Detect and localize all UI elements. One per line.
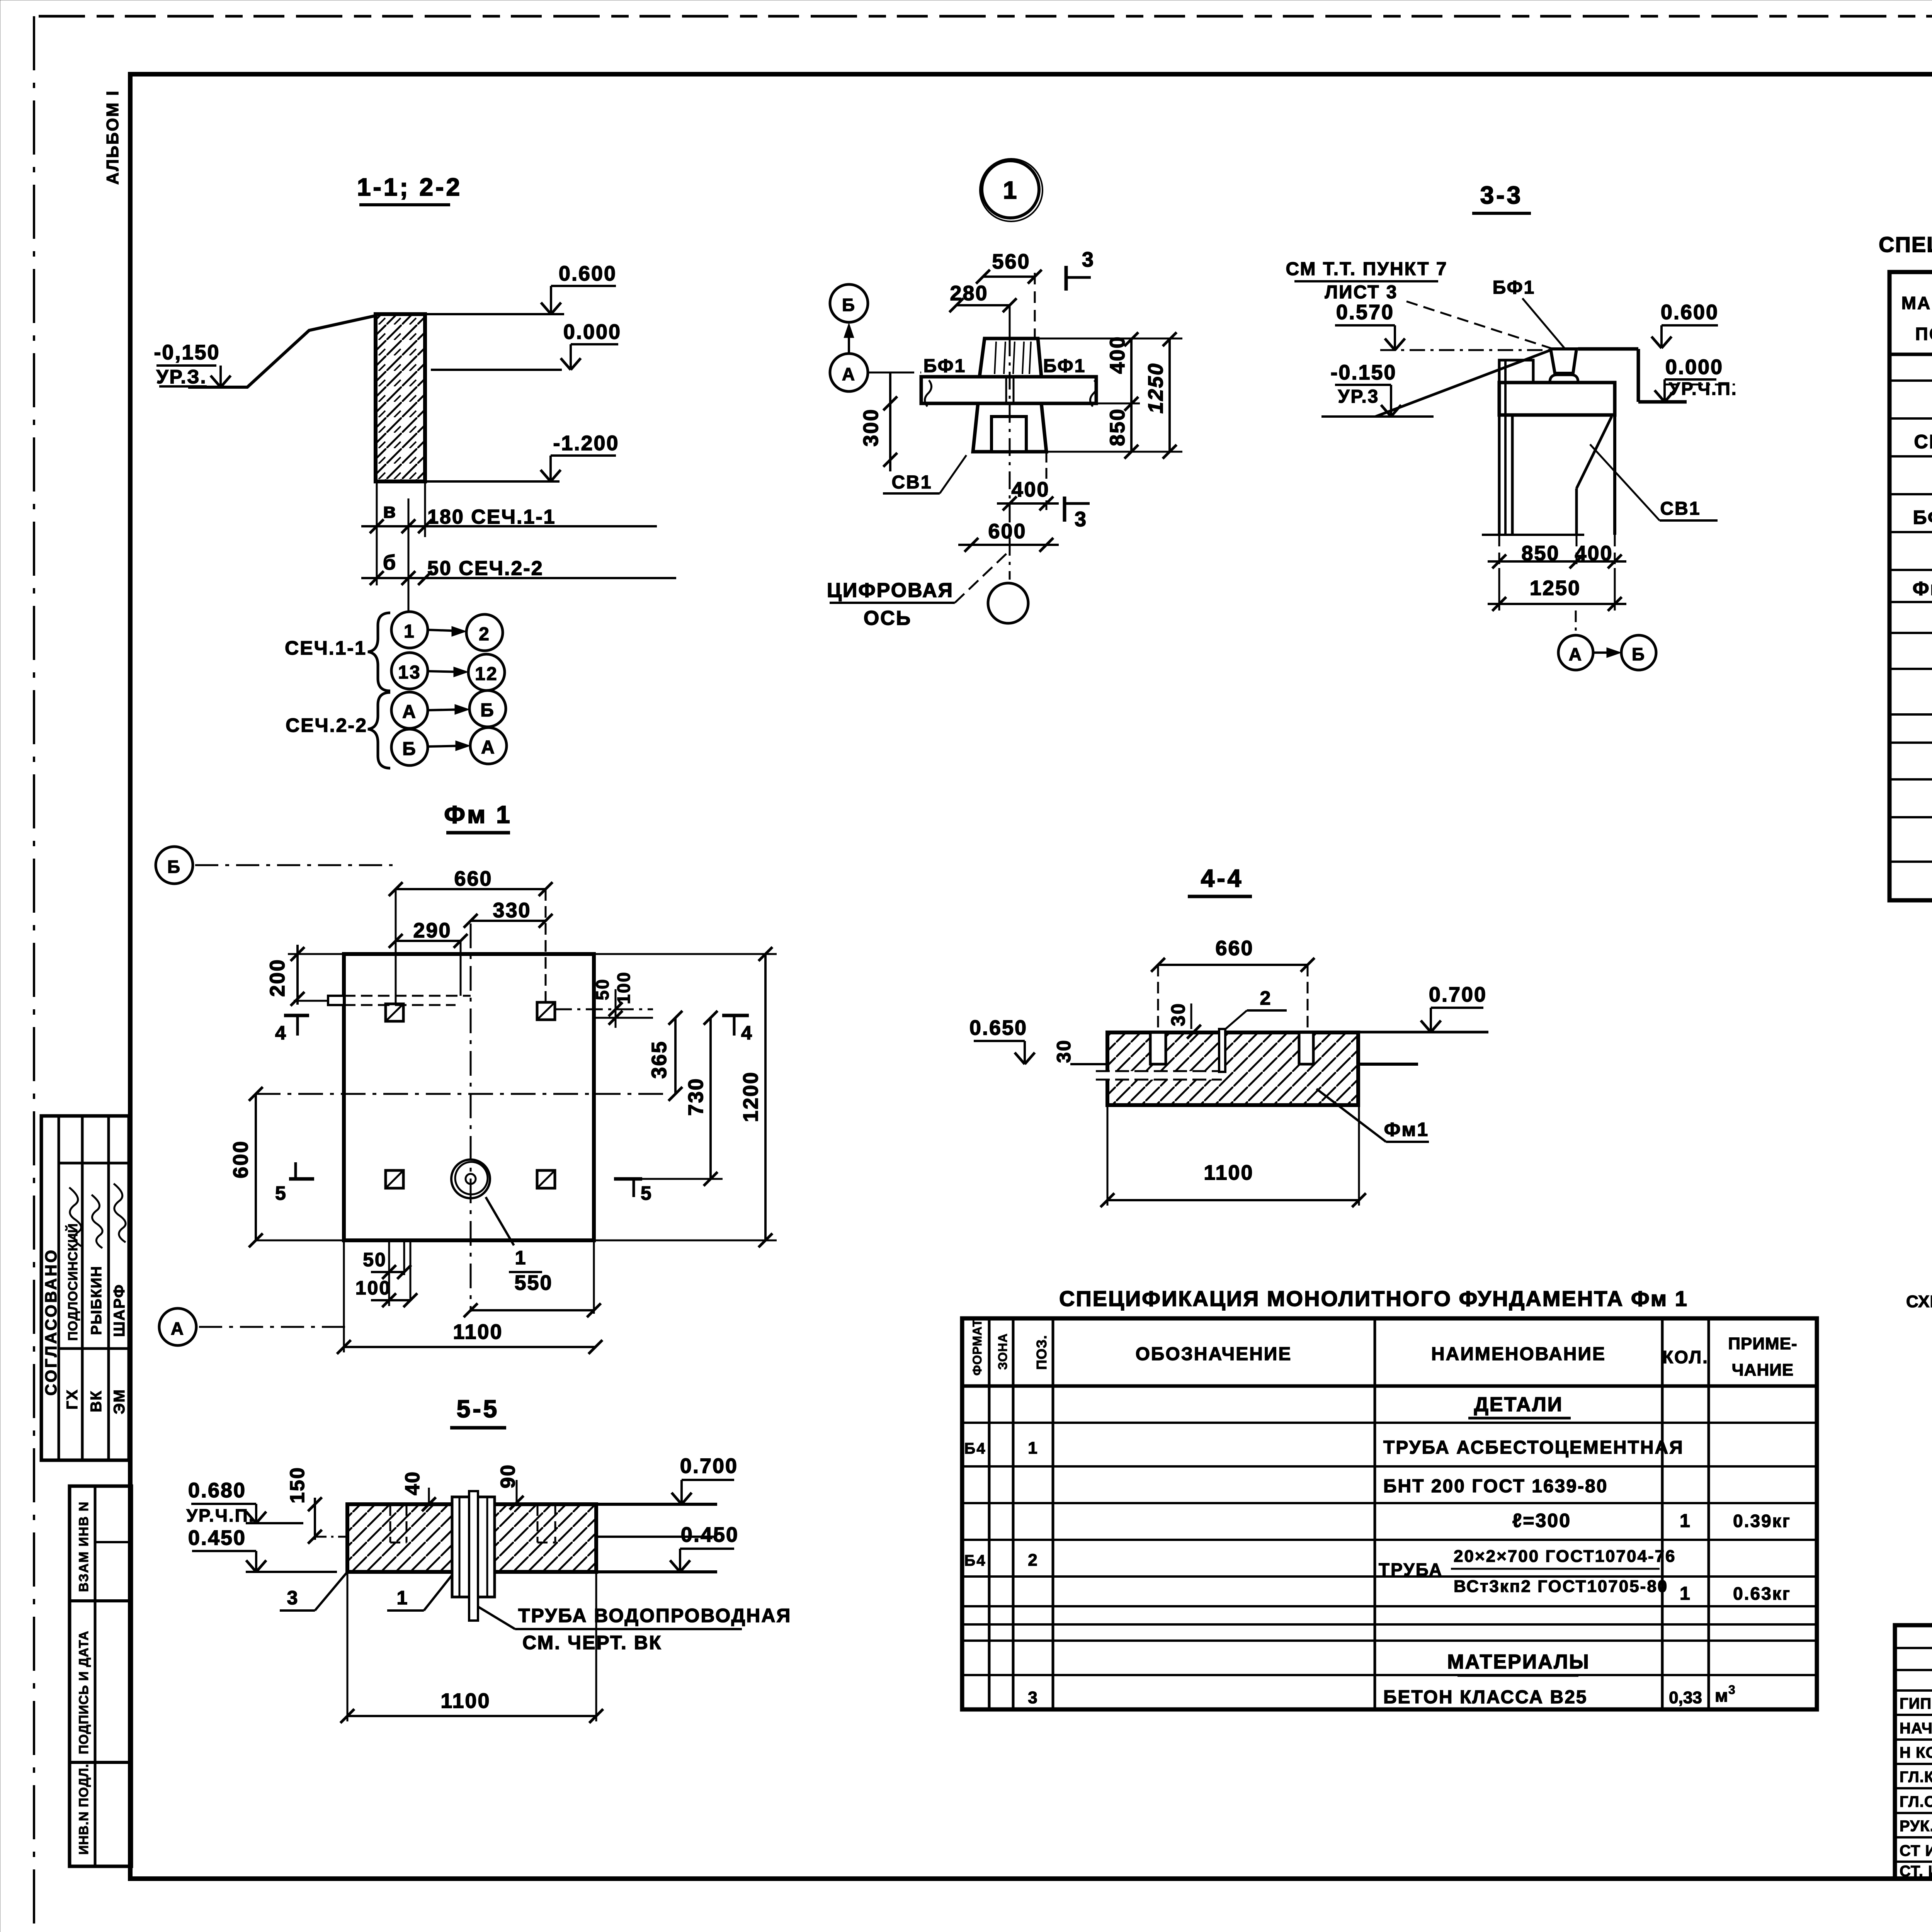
brace sec 2-2 (368, 692, 390, 768)
grade diagonal leader (1376, 350, 1551, 417)
extension lines right (1038, 338, 1182, 340)
ground grade polyline (188, 316, 376, 387)
svg-text:30: 30 (1167, 1002, 1189, 1026)
anchor hole top-left (386, 1004, 403, 1021)
svg-text:в: в (383, 499, 397, 522)
dims 850 400 (1498, 535, 1500, 568)
svg-text:ВК: ВК (88, 1390, 105, 1412)
svg-text:50 СЕЧ.2-2: 50 СЕЧ.2-2 (427, 557, 544, 580)
svg-text:40: 40 (401, 1471, 424, 1495)
floor dash-dot line left (1380, 349, 1549, 351)
arrow B to A (428, 746, 464, 747)
empty axis bubble bottom (988, 583, 1028, 623)
left thin column (1498, 360, 1501, 535)
svg-text:НАИМЕНОВАНИЕ: НАИМЕНОВАНИЕ (1431, 1344, 1606, 1364)
axis leader line (408, 585, 410, 612)
svg-text:Б: Б (842, 295, 856, 315)
svg-text:0.600: 0.600 (1661, 301, 1719, 324)
axis bubble B left (156, 847, 193, 884)
dims 50 100 right of top hole (555, 1009, 653, 1010)
svg-text:Б: Б (1632, 644, 1646, 664)
svg-text:0.570: 0.570 (1336, 301, 1394, 324)
svg-text:1250: 1250 (1144, 362, 1167, 413)
svg-text:50: 50 (363, 1249, 387, 1270)
svg-text:5: 5 (275, 1182, 287, 1204)
axis arrow B-A (848, 328, 850, 352)
brace sec 1-1 (368, 613, 390, 691)
svg-text:290: 290 (413, 919, 451, 942)
svg-text:850: 850 (1521, 542, 1560, 565)
pile center axis (1009, 338, 1011, 580)
svg-text:1: 1 (515, 1247, 527, 1269)
svg-text:3: 3 (1082, 248, 1095, 271)
svg-text:0.000: 0.000 (563, 320, 621, 344)
section marker 4 right (722, 1014, 749, 1017)
grid bubble B2 (391, 729, 428, 765)
svg-text:УР.Ч.П.: УР.Ч.П. (186, 1505, 255, 1526)
svg-text:АЛЬБОМ I: АЛЬБОМ I (103, 90, 122, 185)
svg-text:ПОЗ.: ПОЗ. (1034, 1335, 1049, 1370)
svg-text:ВСт3кп2 ГОСТ10705-80: ВСт3кп2 ГОСТ10705-80 (1454, 1577, 1668, 1596)
svg-text:Б: Б (480, 700, 495, 721)
svg-text:СЕЧ.1-1: СЕЧ.1-1 (285, 637, 367, 659)
grid bubble A (391, 692, 428, 728)
level 0.000 (431, 369, 562, 371)
svg-text:2: 2 (1260, 987, 1272, 1009)
svg-text:660: 660 (1215, 937, 1253, 960)
svg-text:БЕТОН КЛАССА В25: БЕТОН КЛАССА В25 (1383, 1687, 1588, 1708)
svg-text:ШАРФ: ШАРФ (111, 1284, 128, 1337)
svg-text:ГИП: ГИП (1900, 1695, 1932, 1712)
svg-text:ПРИМЕ-: ПРИМЕ- (1728, 1334, 1797, 1353)
svg-text:2: 2 (1028, 1551, 1038, 1570)
svg-text:12: 12 (475, 664, 498, 684)
svg-text:300: 300 (859, 408, 883, 446)
svg-text:0,33: 0,33 (1669, 1688, 1702, 1707)
svg-text:БФ1: БФ1 (1493, 277, 1536, 298)
svg-text:1100: 1100 (440, 1689, 490, 1713)
svg-text:50: 50 (592, 978, 612, 1000)
section marker 3 top (1065, 266, 1068, 291)
grid bubble 1 (391, 612, 428, 648)
svg-text:400: 400 (1106, 335, 1129, 374)
svg-text:1: 1 (1680, 1511, 1691, 1531)
svg-text:КОЛ.: КОЛ. (1662, 1347, 1709, 1367)
svg-text:400: 400 (1575, 542, 1613, 565)
svg-text:0.650: 0.650 (969, 1016, 1027, 1039)
hatched wall column section (376, 314, 425, 481)
svg-text:СВ1: СВ1 (1660, 498, 1701, 519)
svg-text:-0.150: -0.150 (1330, 361, 1396, 384)
svg-text:1-1; 2-2: 1-1; 2-2 (357, 173, 462, 201)
svg-text:660: 660 (454, 867, 492, 890)
svg-text:3: 3 (287, 1587, 299, 1609)
anchor hole top-right (537, 1002, 555, 1020)
svg-text:СМ. ЧЕРТ. ВК: СМ. ЧЕРТ. ВК (522, 1632, 662, 1653)
notch right (1299, 1032, 1313, 1064)
svg-text:А: А (171, 1318, 185, 1338)
svg-text:ЦИФРОВАЯ: ЦИФРОВАЯ (827, 579, 954, 602)
svg-text:280: 280 (950, 282, 988, 305)
foundation beam BF1 in plan (921, 377, 1096, 403)
dash-dot grade segment (315, 1536, 347, 1538)
dim 400-850 right (1130, 338, 1133, 452)
grid bubble 2 (466, 614, 503, 651)
beam break mark right (1090, 380, 1097, 406)
svg-text:ТРУБА ВОДОПРОВОДНАЯ: ТРУБА ВОДОПРОВОДНАЯ (518, 1605, 791, 1626)
svg-text:-1.200: -1.200 (553, 432, 619, 455)
svg-text:ГЛ.СПЕЦ: ГЛ.СПЕЦ (1900, 1793, 1932, 1810)
svg-text:СПЕЦИФИКАЦИЯ К СХЕМЕ РАСПОЛОЖЕ: СПЕЦИФИКАЦИЯ К СХЕМЕ РАСПОЛОЖЕНИЯ ЭЛЕМЕН… (1879, 232, 1932, 257)
svg-text:5-5: 5-5 (457, 1395, 500, 1423)
svg-text:Б4: Б4 (964, 1552, 986, 1569)
svg-text:ОБОЗНАЧЕНИЕ: ОБОЗНАЧЕНИЕ (1136, 1344, 1292, 1364)
pile cap (1499, 383, 1615, 415)
svg-text:180 СЕЧ.1-1: 180 СЕЧ.1-1 (427, 506, 556, 528)
svg-text:0.450: 0.450 (681, 1523, 739, 1546)
svg-text:Б: Б (402, 739, 417, 759)
svg-text:ПОДЛОСИНСКИЙ: ПОДЛОСИНСКИЙ (65, 1223, 80, 1341)
svg-text:4: 4 (275, 1022, 287, 1044)
leader 1 center pipe (486, 1197, 514, 1245)
axis bubble B (830, 284, 868, 322)
dashed anchor hole right (537, 1506, 539, 1543)
ground line right (1358, 1063, 1418, 1066)
svg-text:ПОДПИСЬ И ДАТА: ПОДПИСЬ И ДАТА (77, 1631, 91, 1754)
beam BF1 cross-section (1551, 349, 1577, 373)
arrow 13 to 12 (428, 671, 462, 672)
sheet top dashed border (39, 15, 1932, 18)
svg-text:ЛИСТ 3: ЛИСТ 3 (1325, 282, 1398, 303)
svg-text:4-4: 4-4 (1201, 864, 1244, 892)
svg-text:20×2×700 ГОСТ10704-76: 20×2×700 ГОСТ10704-76 (1454, 1547, 1676, 1566)
axis bubbles A-B (1575, 611, 1577, 635)
pipe elbow horizontal (1096, 1071, 1222, 1080)
svg-text:1: 1 (1680, 1583, 1691, 1604)
svg-text:РЫБКИН: РЫБКИН (88, 1265, 105, 1335)
svg-text:0.63кг: 0.63кг (1733, 1583, 1791, 1604)
svg-text:СВ1: СВ1 (1914, 431, 1932, 452)
svg-text:БФ1: БФ1 (1913, 507, 1932, 528)
beam break mark left (925, 380, 931, 406)
dim extension lines top (395, 889, 397, 1004)
svg-text:150: 150 (286, 1466, 309, 1503)
svg-text:А: А (402, 702, 417, 722)
svg-text:РУК.ГР.: РУК.ГР. (1900, 1818, 1932, 1835)
left beam section box (1499, 360, 1533, 383)
svg-text:БФ1: БФ1 (1043, 356, 1086, 376)
svg-text:ГХ: ГХ (64, 1389, 81, 1410)
svg-text:ЭМ: ЭМ (111, 1389, 128, 1414)
dim 300 left (889, 372, 891, 471)
svg-text:5: 5 (641, 1182, 653, 1204)
section marker 5 left (289, 1177, 314, 1181)
dim 1250 right (1168, 338, 1171, 452)
svg-text:БФ1: БФ1 (923, 356, 966, 376)
svg-text:СТ ИНЖ.: СТ ИНЖ. (1900, 1842, 1932, 1859)
svg-text:А: А (1569, 644, 1583, 664)
foundation slab outline (344, 954, 594, 1240)
svg-text:1: 1 (404, 621, 415, 642)
svg-text:ЧАНИЕ: ЧАНИЕ (1732, 1361, 1794, 1379)
svg-text:550: 550 (514, 1271, 553, 1294)
arrow 1 to 2 (428, 630, 460, 631)
axis bubble A (830, 354, 868, 391)
svg-text:СТ. ИНЖ.: СТ. ИНЖ. (1900, 1863, 1932, 1880)
width dim v=180 sec 1-1 (376, 481, 378, 585)
svg-text:УР.З.: УР.З. (156, 366, 207, 388)
svg-text:Н КОНТР: Н КОНТР (1900, 1744, 1932, 1761)
svg-text:СЕЧ.2-2: СЕЧ.2-2 (286, 714, 367, 736)
svg-text:13: 13 (398, 662, 421, 683)
svg-text:Б4: Б4 (964, 1440, 986, 1457)
svg-text:УР.Ч.П.: УР.Ч.П. (1669, 379, 1737, 399)
svg-text:НАЧ ОТД.: НАЧ ОТД. (1900, 1720, 1932, 1737)
svg-text:1200: 1200 (739, 1071, 762, 1122)
svg-text:ГЛ.КОНСТ: ГЛ.КОНСТ (1900, 1769, 1932, 1786)
svg-text:560: 560 (992, 250, 1030, 273)
svg-text:3: 3 (1075, 508, 1087, 531)
svg-text:0.600: 0.600 (559, 262, 617, 285)
svg-text:600: 600 (988, 520, 1026, 543)
svg-text:Б: Б (167, 857, 181, 877)
svg-text:365: 365 (648, 1040, 671, 1078)
floor line and step (1578, 347, 1638, 351)
anchor hole bottom-left (386, 1170, 403, 1188)
dim 1250 (1498, 568, 1500, 611)
section marker 3 bottom (1063, 497, 1066, 522)
dashed anchor hole left (389, 1506, 391, 1543)
svg-text:1: 1 (1028, 1439, 1038, 1458)
svg-text:ТРУБА АСБЕСТОЦЕМЕНТНАЯ: ТРУБА АСБЕСТОЦЕМЕНТНАЯ (1383, 1437, 1684, 1458)
pile body (1511, 415, 1514, 535)
svg-text:УР.3: УР.3 (1338, 386, 1379, 407)
svg-text:1100: 1100 (1204, 1161, 1253, 1184)
Fm1 spec table grid (962, 1318, 1817, 1709)
svg-text:БНТ 200 ГОСТ 1639-80: БНТ 200 ГОСТ 1639-80 (1383, 1476, 1608, 1497)
pipe vertical (1219, 1029, 1225, 1072)
svg-text:0.000: 0.000 (1665, 355, 1723, 379)
svg-text:-0,150: -0,150 (154, 341, 220, 364)
svg-text:2: 2 (479, 624, 490, 645)
sheet left dash-dot border (33, 16, 35, 1932)
pile head trapezoid (980, 338, 1041, 377)
svg-text:м: м (1715, 1685, 1729, 1706)
pipe stub and dashed pipe run (328, 996, 344, 1005)
title block left rows (1895, 1647, 1932, 1649)
width dim b=50 sec 2-2 (361, 577, 676, 579)
anchor hole bottom-right (537, 1170, 555, 1188)
svg-text:МАРКА: МАРКА (1901, 293, 1932, 313)
svg-text:4: 4 (741, 1022, 753, 1044)
plan axes dash-dot (470, 923, 472, 1312)
svg-text:100: 100 (614, 971, 634, 1004)
section marker 5 right (614, 1177, 642, 1181)
grid bubble 12 (468, 654, 505, 690)
svg-text:МАТЕРИАЛЫ: МАТЕРИАЛЫ (1447, 1651, 1590, 1673)
svg-text:30: 30 (1053, 1039, 1075, 1063)
svg-text:ПОЗ: ПОЗ (1915, 324, 1932, 344)
grid bubble B (469, 690, 506, 727)
spec table grid (1889, 272, 1932, 900)
svg-text:ИНВ.N ПОДЛ.: ИНВ.N ПОДЛ. (77, 1764, 91, 1855)
svg-text:1: 1 (397, 1587, 409, 1609)
svg-text:ОСЬ: ОСЬ (864, 607, 912, 629)
arrow A to B (428, 709, 463, 710)
svg-text:0.450: 0.450 (188, 1526, 246, 1549)
svg-text:СХЕМУ РАСПОЛОЖЕНИЯ ЭЛЕМЕНТОВ Ф: СХЕМУ РАСПОЛОЖЕНИЯ ЭЛЕМЕНТОВ ФУНДАМЕНТОВ… (1906, 1292, 1932, 1311)
center pipe circle (451, 1160, 490, 1198)
svg-text:0.680: 0.680 (188, 1479, 246, 1502)
svg-text:СМ Т.Т. ПУНКТ 7: СМ Т.Т. ПУНКТ 7 (1286, 259, 1447, 279)
grid bubble 13 (391, 653, 428, 689)
svg-text:СПЕЦИФИКАЦИЯ МОНОЛИТНОГО ФУН: СПЕЦИФИКАЦИЯ МОНОЛИТНОГО ФУНДАМЕНТА Фм 1 (1059, 1286, 1688, 1311)
svg-text:Фм1: Фм1 (1913, 578, 1932, 599)
svg-text:330: 330 (493, 899, 531, 922)
foundation block hatched (1107, 1032, 1358, 1105)
svg-text:850: 850 (1106, 408, 1129, 446)
soglasovano approval table (41, 1116, 129, 1460)
svg-text:1: 1 (1003, 176, 1018, 204)
svg-text:Фм1: Фм1 (1384, 1119, 1429, 1140)
svg-text:ТРУБА: ТРУБА (1379, 1560, 1443, 1580)
section marker 4 left (284, 1014, 309, 1017)
svg-text:А: А (842, 364, 856, 384)
svg-text:0.700: 0.700 (1429, 983, 1487, 1006)
grid bubble A2 (470, 728, 507, 764)
svg-text:ВЗАМ ИНВ N: ВЗАМ ИНВ N (77, 1501, 91, 1592)
axis bubble A left (159, 1308, 196, 1345)
level -1.200 (426, 480, 560, 483)
svg-text:СВ1: СВ1 (891, 472, 932, 493)
svg-text:ДЕТАЛИ: ДЕТАЛИ (1474, 1393, 1563, 1416)
title block outline (1895, 1625, 1932, 1879)
level 0.600 (425, 313, 564, 315)
notch left (1150, 1032, 1166, 1064)
pipe sleeve (452, 1497, 495, 1597)
pile body trapezoid (973, 403, 1046, 452)
foundation block hatched 5-5 (347, 1504, 596, 1572)
svg-text:3-3: 3-3 (1480, 181, 1523, 209)
svg-text:1100: 1100 (453, 1320, 503, 1344)
axis dash line from A (868, 372, 921, 374)
svg-text:3: 3 (1028, 1688, 1038, 1707)
svg-text:0.700: 0.700 (680, 1454, 738, 1478)
svg-text:100: 100 (355, 1277, 391, 1299)
svg-text:ЗОНА: ЗОНА (996, 1333, 1010, 1370)
node bubble 1 (982, 161, 1039, 218)
svg-text:ℓ=300: ℓ=300 (1512, 1510, 1571, 1531)
pile inner hole (992, 417, 1026, 452)
svg-text:А: А (481, 737, 496, 758)
inventory boxes strip (70, 1486, 131, 1866)
svg-text:200: 200 (266, 958, 289, 997)
inner water pipe (469, 1491, 478, 1621)
svg-text:730: 730 (684, 1077, 707, 1116)
svg-text:0.39кг: 0.39кг (1733, 1511, 1791, 1531)
svg-text:3: 3 (1728, 1683, 1736, 1697)
svg-text:1250: 1250 (1530, 577, 1581, 600)
svg-text:Фм 1: Фм 1 (444, 801, 512, 828)
svg-text:ФОРМАТ: ФОРМАТ (970, 1319, 984, 1376)
svg-text:600: 600 (229, 1140, 252, 1178)
svg-text:СОГЛАСОВАНО: СОГЛАСОВАНО (42, 1248, 60, 1396)
svg-text:б: б (383, 551, 397, 574)
